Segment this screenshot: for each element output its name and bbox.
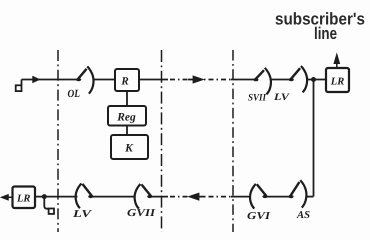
wire trunk to GVI (231, 196, 249, 198)
svg-text:K: K (124, 143, 134, 155)
svg-text:LR: LR (16, 194, 30, 205)
box R (115, 69, 139, 91)
trunk dash-dot bottom (170, 196, 231, 198)
wire AS to corner (306, 196, 314, 198)
svg-text:line: line (314, 24, 337, 43)
svg-text:GVI: GVI (247, 211, 271, 222)
svg-text:LV: LV (72, 209, 93, 220)
selector LV (bottom) (76, 184, 94, 209)
wire GVII to section line 2 (151, 196, 168, 198)
selector AS (288, 180, 306, 207)
arrow left (outgoing bottom-left) (2, 195, 13, 200)
box LR (top right) (326, 68, 349, 92)
arrow right on trunk top (188, 77, 202, 83)
svg-text:LR: LR (330, 77, 344, 88)
text subscriber's line (275, 9, 365, 43)
arrow left on trunk bottom (190, 194, 204, 200)
wire SVII to LV (271, 79, 291, 81)
trunk dash-dot top (170, 79, 231, 81)
box LR (bottom left) (13, 187, 36, 209)
wire OL to R (94, 79, 116, 81)
section boundary line 1 (57, 50, 59, 232)
plug P1 (top-left jack) (16, 80, 22, 92)
box K (111, 135, 148, 159)
selector GVII (135, 184, 153, 209)
svg-text:Reg: Reg (116, 112, 136, 124)
vertical link wire (313, 80, 315, 197)
section boundary line 3 (232, 50, 234, 232)
arrow right on top-left wire (32, 77, 39, 82)
wire R box to section line 2 (139, 79, 168, 81)
arrow to subscriber's line (334, 55, 339, 68)
junction dot top (311, 77, 316, 82)
selector GVI (250, 184, 268, 209)
wire top-left (22, 79, 78, 81)
wire trunk to SVII (231, 79, 255, 81)
selector LV (top) (289, 66, 308, 92)
wire LR to LV (bottom) (35, 196, 78, 198)
wire R to Reg (126, 91, 128, 106)
svg-text:R: R (120, 76, 128, 88)
box Reg (108, 106, 146, 126)
plug P2 (bottom jack) (44, 197, 54, 214)
svg-text:AS: AS (296, 210, 310, 221)
svg-text:LV: LV (273, 92, 291, 103)
wire LV to LR (306, 79, 326, 81)
junction dot bottom (42, 194, 47, 199)
section boundary line 2 (161, 50, 163, 232)
svg-text:OL: OL (68, 88, 81, 100)
svg-text:GVII: GVII (127, 208, 156, 219)
selector OL (76, 66, 94, 93)
wire Reg to K (126, 126, 128, 136)
svg-text:SVII: SVII (248, 93, 267, 104)
selector SVII (253, 68, 271, 95)
wire GVI to AS (266, 196, 290, 198)
wire LV to GVII (bottom) (92, 196, 135, 198)
